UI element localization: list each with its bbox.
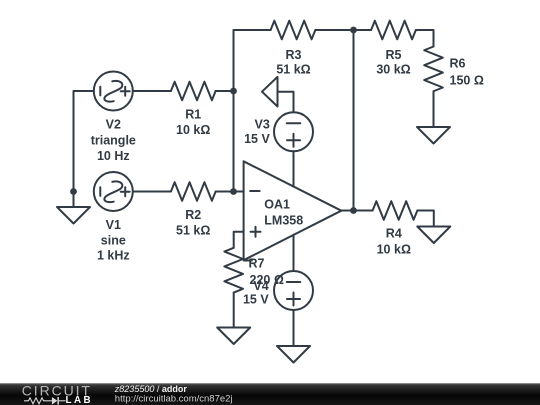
ground under R6 (417, 127, 450, 144)
resistor R7 (224, 248, 243, 293)
svg-text:150 Ω: 150 Ω (450, 74, 484, 88)
op-amp OA1 triangle (244, 161, 342, 260)
wire op-amp V+ pin to V3 (293, 151, 295, 186)
wire V1 to R2 (133, 191, 171, 193)
svg-text:30 kΩ: 30 kΩ (376, 63, 410, 77)
stub at op-amp lower corner (244, 260, 252, 262)
rotated ground at V3 (262, 77, 278, 107)
svg-text:51 kΩ: 51 kΩ (276, 63, 310, 77)
wire R4 to ground (417, 211, 433, 227)
wire R7 to ground (233, 293, 235, 328)
wire R6 to ground (433, 91, 435, 127)
node dot left (70, 188, 77, 195)
wire feedback vertical left (234, 30, 271, 192)
svg-text:LM358: LM358 (264, 214, 303, 228)
svg-text:triangle: triangle (91, 133, 136, 147)
wire left rail (74, 91, 94, 192)
ground left (73, 192, 75, 208)
ground under R4 (417, 227, 450, 244)
svg-text:V2: V2 (106, 118, 121, 132)
resistor R3 (271, 21, 316, 40)
svg-text:R1: R1 (185, 108, 201, 122)
wire op-amp plus input to R7 (234, 232, 244, 248)
svg-text:R4: R4 (386, 227, 402, 241)
wire R1 to node (216, 90, 234, 92)
node dot top (350, 27, 357, 34)
voltage source V3 (274, 112, 313, 151)
svg-text:http://circuitlab.com/cn87e2j: http://circuitlab.com/cn87e2j (115, 393, 233, 404)
wire top node to R5 (354, 29, 372, 31)
resistor R5 (371, 21, 416, 40)
node dot R1 (230, 88, 237, 95)
wire V4 to ground (293, 310, 295, 346)
svg-text:1 kHz: 1 kHz (97, 249, 130, 263)
svg-text:R2: R2 (185, 208, 201, 222)
svg-text:10 kΩ: 10 kΩ (377, 242, 411, 256)
wire R2 to op-amp inverting input (216, 191, 244, 193)
wire R5 to R6 (416, 30, 434, 47)
ground under V4 (277, 346, 310, 363)
svg-text:V3: V3 (255, 118, 270, 132)
resistor R6 (424, 47, 443, 92)
svg-text:15 V: 15 V (243, 293, 269, 307)
svg-text:15 V: 15 V (244, 132, 270, 146)
op-amp minus glyph (250, 190, 260, 192)
footer bar (0, 383, 540, 405)
svg-text:R6: R6 (450, 57, 466, 71)
svg-text:R7: R7 (249, 257, 265, 271)
resistor R2 (171, 182, 216, 201)
svg-text:51 kΩ: 51 kΩ (176, 224, 210, 238)
svg-text:V4: V4 (253, 279, 268, 293)
footer logo circuit line with resistor and diode (24, 398, 66, 404)
resistor R1 (171, 82, 216, 101)
svg-text:V1: V1 (106, 218, 121, 232)
wire op-amp output (341, 210, 372, 212)
node dot inverting input (230, 188, 237, 195)
svg-text:R5: R5 (386, 48, 402, 62)
voltage source V2 (94, 72, 133, 111)
wire V2 to R1 (133, 90, 171, 92)
node dot output (350, 207, 357, 214)
voltage source V1 (94, 172, 133, 211)
wire R3 to top node (315, 29, 353, 31)
voltage source V4 (274, 271, 313, 310)
svg-text:OA1: OA1 (264, 198, 290, 212)
wire op-amp V- pin to V4 (293, 235, 295, 271)
svg-text:R3: R3 (286, 48, 302, 62)
wire top node down to output (353, 30, 355, 211)
svg-text:10 kΩ: 10 kΩ (176, 123, 210, 137)
ground under R7 (217, 328, 250, 345)
svg-text:sine: sine (101, 234, 126, 248)
resistor R4 (373, 201, 418, 220)
svg-text:10 Hz: 10 Hz (97, 149, 130, 163)
op-amp plus glyph (251, 231, 261, 233)
svg-text:LAB: LAB (66, 395, 94, 405)
wire V3 top to rotated ground (278, 92, 294, 113)
